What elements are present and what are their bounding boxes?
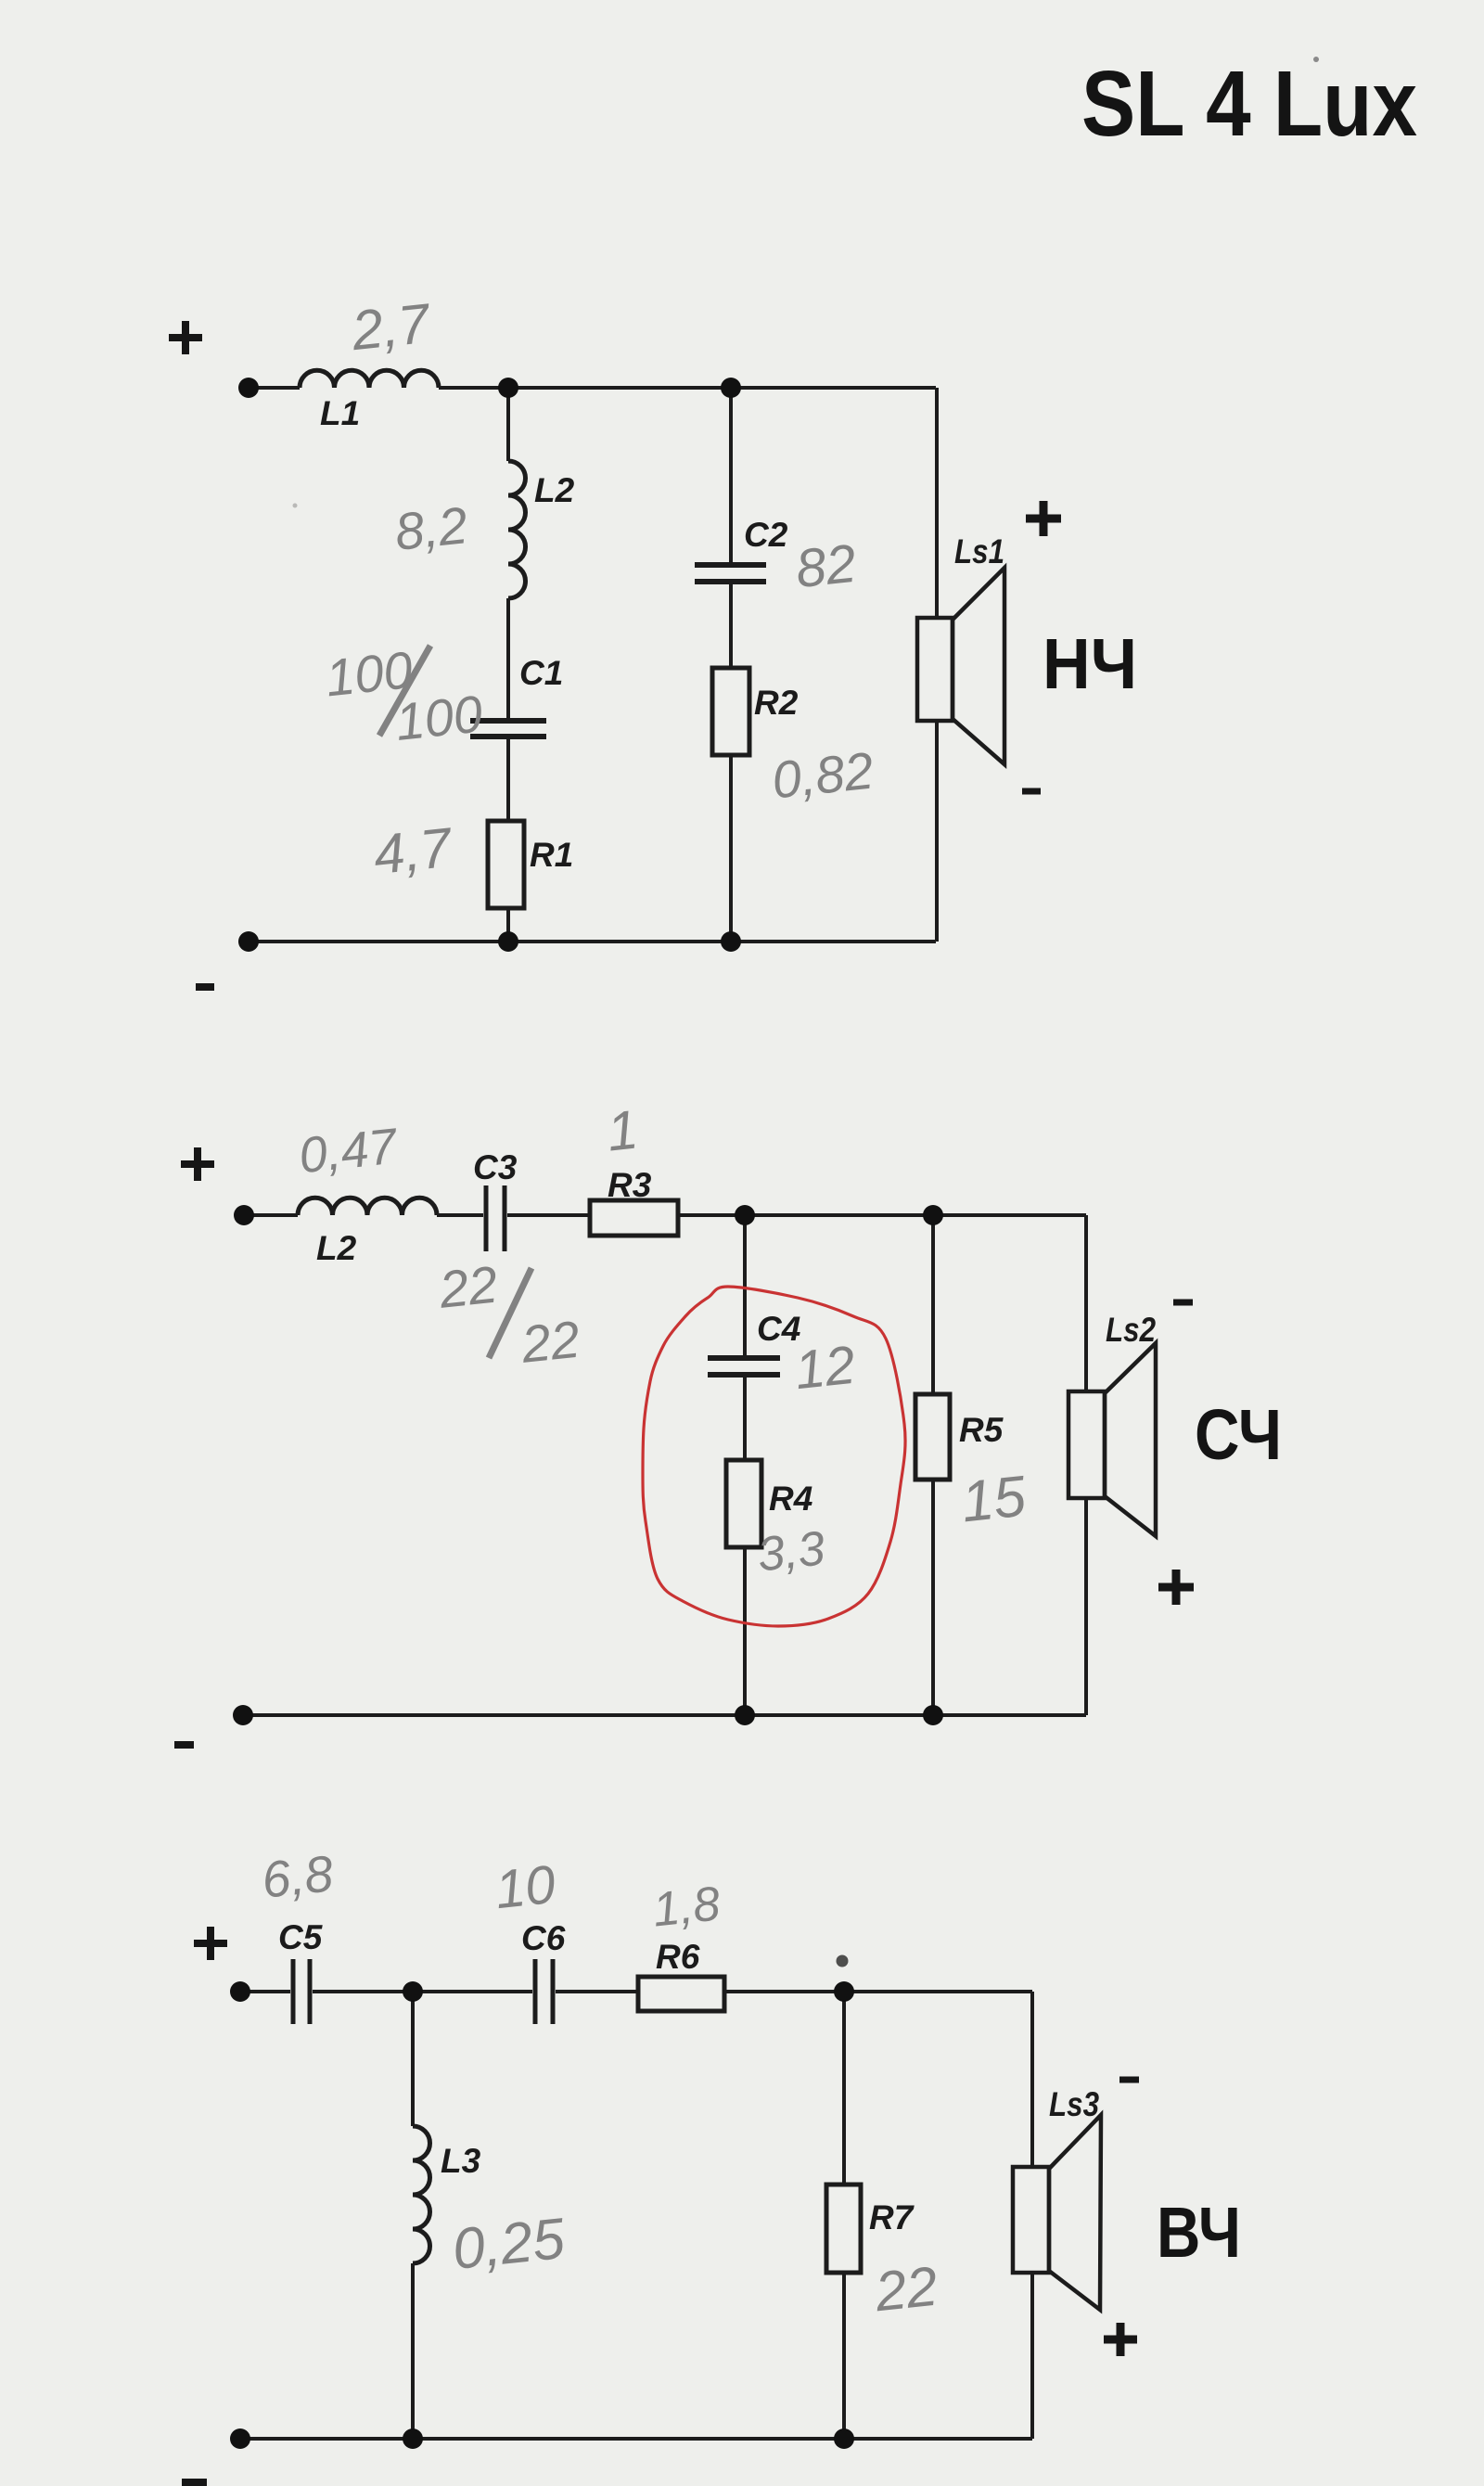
node terminal + section 2 <box>234 1205 254 1225</box>
plus speaker Ls3 <box>1104 2323 1137 2356</box>
minus speaker Ls1 <box>1022 788 1041 795</box>
wire speaker branch Ls1 <box>935 388 939 942</box>
svg-text:C2: C2 <box>744 516 788 554</box>
svg-text:Ls1: Ls1 <box>954 532 1004 570</box>
capacitor C4 <box>708 1358 780 1375</box>
wire R7 branch top <box>842 1992 846 2185</box>
speaker Ls2 <box>1068 1343 1156 1536</box>
dust speck mid left <box>293 504 298 508</box>
node junction C2 branch <box>721 378 741 398</box>
svg-text:R5: R5 <box>959 1411 1004 1449</box>
smudge dot above R7 junction <box>837 1955 849 1967</box>
svg-text:15: 15 <box>958 1465 1029 1535</box>
node bottom R2 <box>721 931 741 952</box>
plus speaker Ls2 <box>1158 1570 1194 1605</box>
minus terminal section 1 <box>196 983 214 991</box>
svg-text:R3: R3 <box>608 1166 652 1204</box>
node junction L2 branch <box>498 378 518 398</box>
plus speaker Ls1 <box>1026 501 1061 536</box>
wire C1 to R1 <box>506 739 510 821</box>
svg-text:4,7: 4,7 <box>371 816 457 887</box>
svg-text:Ls3: Ls3 <box>1049 2085 1099 2123</box>
value 100/100 for C1 <box>323 634 485 758</box>
svg-text:R2: R2 <box>754 684 799 722</box>
wire bottom rail section 1 <box>249 940 936 943</box>
node junction R5 branch <box>923 1205 943 1225</box>
svg-text:R1: R1 <box>530 836 573 874</box>
node terminal + section 1 <box>238 378 259 398</box>
wire speaker branch Ls3 <box>1030 1992 1034 2439</box>
wire bottom rail section 2 <box>243 1713 1086 1717</box>
node terminal - section 3 <box>230 2428 250 2449</box>
minus terminal section 2 <box>174 1741 194 1749</box>
wire R4 to bottom rail <box>743 1547 747 1715</box>
resistor R4 <box>726 1460 761 1547</box>
svg-text:0,82: 0,82 <box>769 740 876 809</box>
plus terminal section 3 <box>194 1927 227 1960</box>
svg-text:L2: L2 <box>316 1229 357 1267</box>
value 22/22 for C3 <box>436 1247 582 1381</box>
wire top rail right of L1 <box>439 386 936 390</box>
svg-text:R4: R4 <box>769 1480 812 1518</box>
node bottom R1 <box>498 931 518 952</box>
wire top rail left of L1 <box>249 386 300 390</box>
speaker Ls1 <box>917 568 1004 764</box>
svg-text:0,25: 0,25 <box>450 2207 569 2282</box>
svg-text:СЧ: СЧ <box>1195 1395 1282 1475</box>
svg-text:3,3: 3,3 <box>755 1521 827 1582</box>
svg-text:НЧ: НЧ <box>1043 624 1137 704</box>
dust speck top right <box>1313 57 1319 62</box>
wire R1 to bottom rail <box>506 908 510 942</box>
svg-text:C1: C1 <box>519 654 563 692</box>
wire C5 to junction <box>313 1990 532 1993</box>
wire C2 branch top <box>729 388 733 562</box>
capacitor C2 <box>695 565 766 582</box>
minus speaker Ls3 <box>1119 2077 1139 2083</box>
node bottom L3 branch <box>403 2428 423 2449</box>
wire C4 to R4 <box>743 1378 747 1460</box>
svg-text:Ls2: Ls2 <box>1106 1311 1156 1349</box>
plus terminal section 2 <box>181 1147 214 1181</box>
wire L3 branch top <box>411 1992 415 2126</box>
capacitor C5 <box>293 1959 310 2024</box>
wire C6 to R6 <box>556 1990 638 1993</box>
wire R7 to bottom rail <box>842 2273 846 2439</box>
svg-text:C5: C5 <box>278 1918 324 1956</box>
slash of 22/22 <box>489 1268 531 1358</box>
svg-text:10: 10 <box>493 1854 558 1920</box>
inductor L2 (section 1 shunt) <box>508 461 526 598</box>
svg-text:1,8: 1,8 <box>650 1877 723 1937</box>
wire L2 to C3 <box>437 1213 483 1217</box>
svg-text:6,8: 6,8 <box>259 1844 336 1909</box>
minus terminal section 3 <box>182 2479 207 2486</box>
wire top rail left of C5 <box>240 1990 290 1993</box>
wire R2 to bottom rail <box>729 755 733 942</box>
wire top rail left of L2 <box>244 1213 298 1217</box>
svg-text:2,7: 2,7 <box>348 292 435 363</box>
svg-text:C6: C6 <box>521 1919 566 1957</box>
wire R5 to bottom rail <box>931 1480 935 1715</box>
minus speaker Ls2 <box>1173 1300 1193 1306</box>
wire bottom rail section 3 <box>240 2437 1032 2441</box>
wire L3 to bottom rail <box>411 2263 415 2439</box>
svg-text:12: 12 <box>792 1335 858 1401</box>
wire R3 to speaker branch <box>678 1213 1086 1217</box>
wire L2 branch top <box>506 388 510 461</box>
capacitor C1 <box>470 721 546 737</box>
node junction C4 branch <box>735 1205 755 1225</box>
resistor R1 <box>488 821 524 908</box>
resistor R3 <box>590 1200 678 1236</box>
resistor R2 <box>712 668 749 755</box>
svg-text:22: 22 <box>871 2255 940 2324</box>
wire R6 to speaker branch <box>724 1990 1032 1993</box>
svg-text:82: 82 <box>793 533 859 599</box>
capacitor C3 <box>486 1185 505 1251</box>
svg-text:8,2: 8,2 <box>392 495 470 561</box>
svg-text:ВЧ: ВЧ <box>1157 2193 1241 2273</box>
svg-text:R6: R6 <box>656 1938 700 1976</box>
node terminal + section 3 <box>230 1981 250 2002</box>
wire L2 to C1 <box>506 598 510 719</box>
slash of 100/100 <box>379 646 430 736</box>
svg-text:22: 22 <box>436 1255 501 1319</box>
wire C2 to R2 <box>729 584 733 668</box>
speaker Ls3 <box>1013 2115 1101 2310</box>
node terminal - section 2 <box>233 1705 253 1725</box>
wire C3 to R3 <box>507 1213 590 1217</box>
red marker circle around C4 and R4 <box>643 1287 905 1626</box>
wire C4 branch top <box>743 1215 747 1355</box>
wire speaker branch Ls2 <box>1084 1215 1088 1715</box>
svg-text:22: 22 <box>518 1310 582 1374</box>
wire R5 branch top <box>931 1215 935 1394</box>
resistor R7 <box>826 2185 861 2273</box>
node bottom R7 branch <box>834 2428 854 2449</box>
node bottom C4 branch <box>735 1705 755 1725</box>
svg-text:L3: L3 <box>441 2142 481 2180</box>
svg-text:L1: L1 <box>320 394 360 432</box>
svg-text:C3: C3 <box>473 1148 518 1186</box>
node terminal - section 1 <box>238 931 259 952</box>
resistor R6 <box>638 1977 724 2011</box>
capacitor C6 <box>535 1959 553 2024</box>
plus terminal section 1 <box>169 321 202 354</box>
inductor L2 (section 2 series) <box>298 1198 437 1215</box>
inductor L3 <box>413 2126 430 2263</box>
svg-text:1: 1 <box>604 1098 641 1162</box>
svg-text:R7: R7 <box>869 2198 915 2236</box>
inductor L1 <box>300 370 439 388</box>
node bottom R5 branch <box>923 1705 943 1725</box>
resistor R5 <box>915 1394 950 1480</box>
svg-text:L2: L2 <box>534 471 575 509</box>
svg-text:SL 4 Lux: SL 4 Lux <box>1081 52 1417 156</box>
node junction L3 branch <box>403 1981 423 2002</box>
svg-text:100: 100 <box>392 684 485 750</box>
node junction R7 branch <box>834 1981 854 2002</box>
svg-text:0,47: 0,47 <box>297 1118 402 1184</box>
